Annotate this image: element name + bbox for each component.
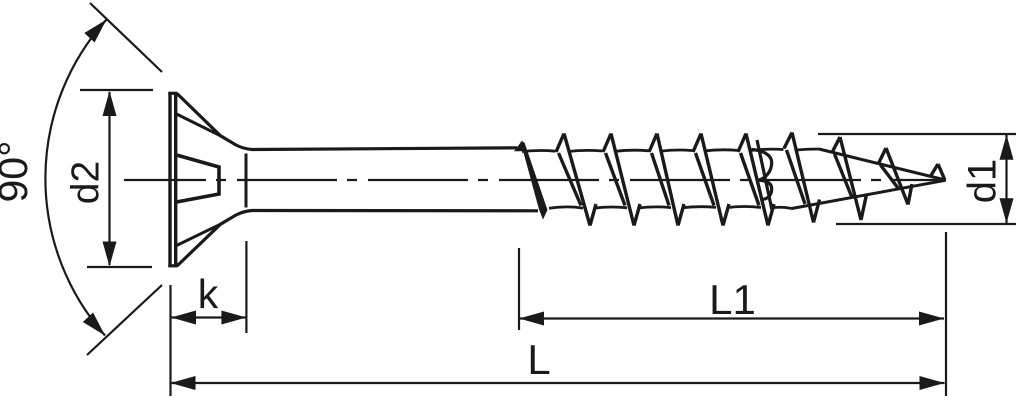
drive recess cross-section [177,155,220,202]
point taper bottom outline [791,180,946,208]
svg-text:L: L [527,336,550,383]
90-degree angle leg bottom [87,285,162,355]
head face inner line [174,93,177,268]
thread turn 9 at tip [931,164,945,180]
L1 dimension line [519,317,944,319]
d2 extension line bottom [87,266,152,268]
L dimension line [171,382,945,384]
svg-text:d1: d1 [961,159,1005,204]
d1 extension line bottom [836,223,1016,225]
d1 extension line top [818,133,1016,135]
L1 arrow left [519,312,544,326]
thread turn 5 [738,134,774,226]
thread turn 3 [649,134,684,226]
d1 arrow up [1000,135,1014,160]
thread turn 4 [693,134,729,226]
head-shank junction line [245,154,248,208]
thread turn 1 [556,134,596,226]
thread top root line [522,149,819,152]
thread start mini crest [516,142,525,151]
90-degree angle leg top [90,3,162,72]
centerline axis [124,179,946,181]
d2 dimension line [108,92,110,265]
thread helix run-out B-curve [752,140,773,210]
k arrow right [221,311,246,325]
thread turn 8 on taper [879,148,913,205]
svg-text:d2: d2 [65,161,108,204]
L arrow left [171,376,196,390]
d2 extension line top [80,89,153,91]
90-degree angle arc [45,20,106,336]
d1 arrow down [1000,198,1014,223]
arc arrowhead bottom [83,312,110,340]
L extension line left [169,285,171,396]
head rim bottom cap [168,264,177,267]
head inner cone edge top [177,114,221,136]
thread run-out wedge [521,142,548,220]
arc arrowhead top [84,15,111,43]
L extension line right [945,232,947,396]
svg-text:90°: 90° [0,140,36,202]
k arrow left [171,311,196,325]
head inner cone edge bottom [177,224,221,245]
head cone bottom outline + shank bottom line [177,211,538,267]
L arrow right [920,376,945,390]
svg-text:L1: L1 [709,276,756,323]
thread turn 2 [603,134,640,226]
svg-text:k: k [198,271,219,317]
L1 extension line left [518,248,520,330]
thread turn 6 on taper [784,133,820,223]
thread bottom root line [549,206,791,208]
thread turn 7 on taper [832,137,867,220]
d1 dimension line [1005,135,1007,223]
head face outer line [168,93,171,268]
L1 arrow right [919,312,944,326]
d2 arrow down [103,242,117,267]
d2 arrow up [103,91,117,116]
k extension line right [245,241,247,333]
k dimension line [171,316,246,318]
point taper top outline [819,149,946,180]
head cone top outline + shank top line [177,94,517,150]
head rim top cap [168,92,177,95]
